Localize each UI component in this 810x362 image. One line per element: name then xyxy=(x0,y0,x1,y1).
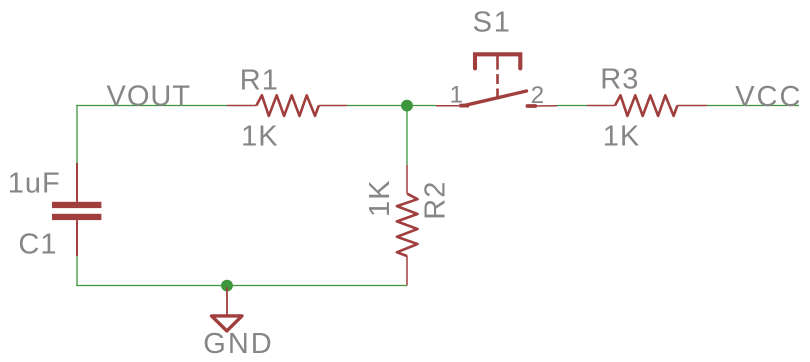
svg-text:C1: C1 xyxy=(18,229,57,261)
resistor R1 xyxy=(227,95,347,116)
svg-text:S1: S1 xyxy=(473,7,512,39)
svg-text:VCC: VCC xyxy=(735,81,802,113)
svg-text:GND: GND xyxy=(203,328,273,360)
svg-text:R1: R1 xyxy=(240,65,279,97)
svg-text:R2: R2 xyxy=(420,181,452,220)
svg-text:VOUT: VOUT xyxy=(107,81,192,113)
svg-text:1K: 1K xyxy=(241,120,278,152)
value 1K of R3 xyxy=(603,121,640,153)
wire node to switch pin 1 xyxy=(407,105,436,107)
label C1 xyxy=(18,229,57,261)
pin 2 contact stub xyxy=(527,104,535,108)
pin 2 lead xyxy=(535,105,557,107)
net label GND xyxy=(203,328,273,360)
pin number 2 xyxy=(531,82,544,109)
wire R1 to node xyxy=(347,105,407,107)
pin number 1 xyxy=(450,82,463,109)
svg-text:2: 2 xyxy=(531,82,544,109)
resistor R2 xyxy=(397,165,418,286)
value 1K of R2 (rotated) xyxy=(364,180,396,217)
capacitor C1 xyxy=(52,163,101,256)
net label VOUT xyxy=(107,81,192,113)
svg-text:1uF: 1uF xyxy=(8,168,61,200)
value 1K of R1 xyxy=(241,120,278,152)
svg-text:1: 1 xyxy=(450,82,463,109)
wire node down to R2 xyxy=(406,106,408,166)
wire VOUT top-left horizontal xyxy=(76,105,227,107)
actuator bracket xyxy=(475,54,520,68)
node junction at R1/R2/S1 xyxy=(401,100,413,112)
lever xyxy=(464,91,527,106)
pin 1 contact stub xyxy=(459,104,469,108)
wire R3 to VCC xyxy=(707,105,799,107)
label S1 xyxy=(473,7,512,39)
svg-text:R3: R3 xyxy=(600,63,639,95)
wire switch pin 2 to R3 xyxy=(557,105,587,107)
net label VCC xyxy=(735,81,802,113)
svg-text:1K: 1K xyxy=(603,121,640,153)
wire left vertical upper xyxy=(76,105,78,163)
svg-text:1K: 1K xyxy=(364,180,396,217)
resistor R3 xyxy=(587,95,707,116)
pin 1 lead xyxy=(436,105,459,107)
label R2 (rotated) xyxy=(420,181,452,220)
label R1 xyxy=(240,65,279,97)
label R3 xyxy=(600,63,639,95)
value 1uF of C1 xyxy=(8,168,61,200)
wire bottom horizontal xyxy=(76,285,407,287)
actuator dashed link xyxy=(496,55,499,99)
ground symbol xyxy=(212,287,243,331)
node junction at GND xyxy=(221,280,233,292)
wire left vertical lower xyxy=(76,256,78,286)
switch S1 xyxy=(436,54,557,106)
